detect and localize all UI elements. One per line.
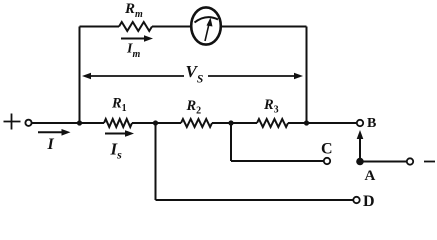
junction node at left branch [77, 120, 82, 125]
terminal D [353, 197, 359, 203]
wire: left vertical branch [79, 27, 81, 124]
wire: top left segment [80, 26, 120, 28]
wire: main row left [32, 122, 104, 124]
svg-text:Im: Im [126, 42, 140, 61]
switch arrow from A to B [357, 130, 364, 158]
svg-text:A: A [365, 168, 376, 184]
svg-text:R2: R2 [186, 98, 202, 117]
current arrow Is [105, 130, 134, 137]
node A [356, 158, 364, 166]
junction node after R2 [228, 120, 233, 125]
svg-text:D: D [363, 193, 375, 210]
minus terminal [424, 161, 435, 163]
junction node at right branch [304, 120, 309, 125]
wire: D horizontal [156, 199, 354, 201]
svg-text:I: I [47, 136, 55, 153]
resistor R1 [104, 119, 132, 127]
output terminal circle [407, 158, 413, 164]
svg-text:B: B [367, 116, 376, 131]
current arrow Im [121, 35, 153, 42]
svg-text:VS: VS [186, 62, 204, 86]
svg-text:Is: Is [110, 140, 123, 162]
svg-text:C: C [321, 141, 333, 158]
meter M [191, 7, 221, 44]
terminal B [357, 120, 363, 126]
current arrow I [38, 129, 71, 136]
resistor R3 [257, 119, 288, 127]
wire: top right segment [221, 26, 307, 28]
terminal C [324, 158, 330, 164]
wire: right vertical branch [306, 27, 308, 124]
svg-text:R1: R1 [111, 96, 127, 115]
resistor Rm [119, 22, 152, 31]
wire: main row right to B [288, 122, 357, 124]
plus terminal [4, 114, 21, 130]
wire: top mid segment [152, 26, 192, 28]
resistor R2 [181, 119, 212, 127]
svg-text:Rm: Rm [124, 1, 143, 20]
svg-text:R3: R3 [263, 97, 279, 116]
wire: branch down to D [155, 123, 157, 200]
input terminal circle [25, 120, 31, 126]
voltage annotation Vs double arrow [82, 73, 303, 80]
wire: C horizontal [231, 160, 324, 162]
wire: main row between R2 and R3 [212, 122, 257, 124]
junction node after R1 [153, 120, 158, 125]
wire: A to output terminal [360, 161, 407, 163]
wire: branch down to C [230, 123, 232, 161]
wire: main row between R1 and R2 [132, 122, 181, 124]
